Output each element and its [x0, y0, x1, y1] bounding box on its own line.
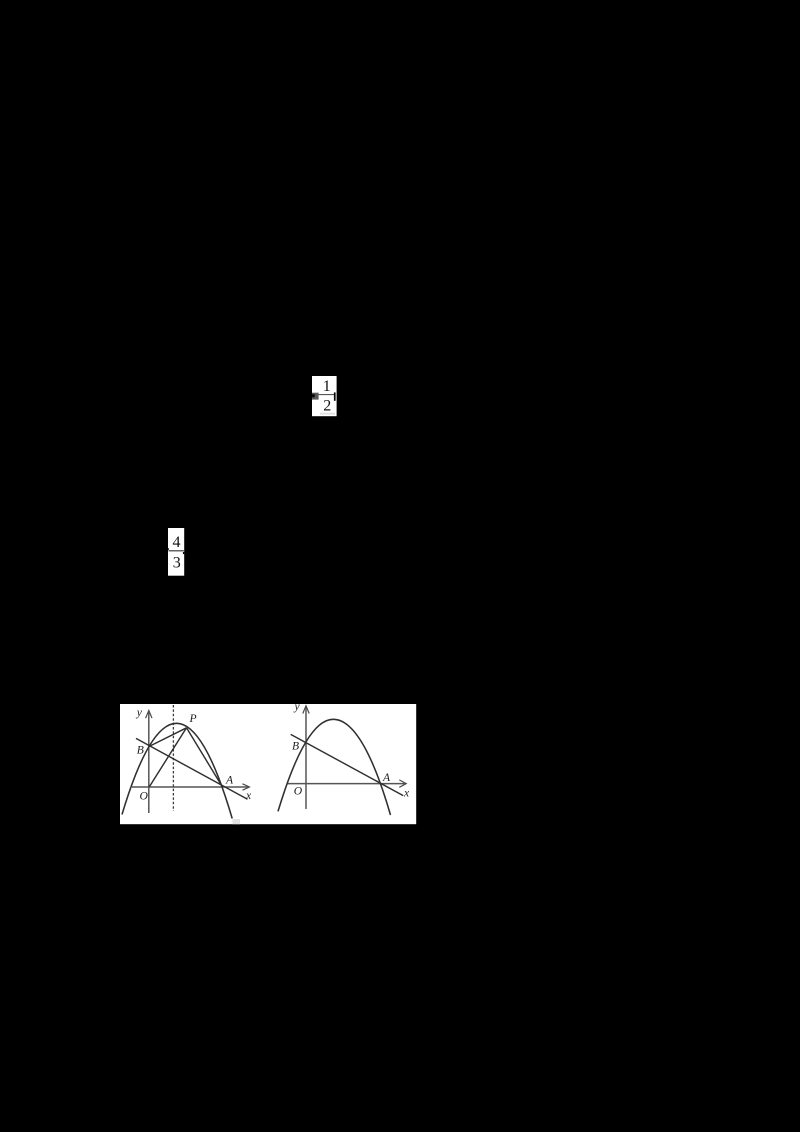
- svg-text:O: O: [294, 784, 303, 797]
- svg-text:1: 1: [323, 378, 331, 395]
- svg-text:A: A: [382, 771, 391, 784]
- svg-text:A: A: [225, 773, 234, 786]
- svg-text:x: x: [403, 786, 410, 799]
- svg-text:y: y: [135, 706, 142, 719]
- svg-text:O: O: [139, 789, 148, 802]
- svg-text:4: 4: [172, 534, 180, 551]
- svg-text:B: B: [292, 739, 299, 752]
- svg-text:x: x: [245, 789, 252, 802]
- svg-text:y: y: [293, 704, 300, 713]
- svg-text:B: B: [137, 743, 144, 756]
- svg-text:P: P: [188, 712, 196, 725]
- svg-text:3: 3: [173, 554, 181, 571]
- svg-text:2: 2: [323, 397, 331, 414]
